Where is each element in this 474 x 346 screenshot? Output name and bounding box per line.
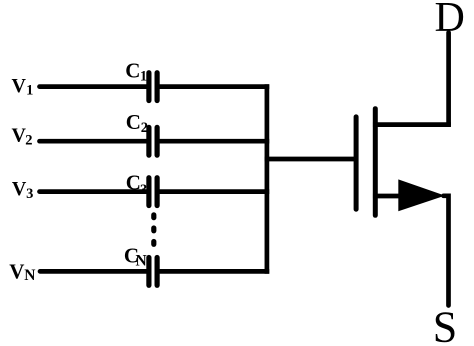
svg-text:1: 1 bbox=[140, 69, 147, 85]
capacitor C2 bbox=[149, 127, 157, 155]
drain wire horizontal bbox=[375, 122, 448, 127]
floating-gate summing bus wire bbox=[265, 87, 270, 272]
source wire stub bbox=[375, 194, 400, 199]
wire V2 to C2 bbox=[40, 139, 148, 144]
input label V3 bbox=[12, 178, 33, 202]
input label V1 bbox=[12, 75, 34, 98]
svg-text:C: C bbox=[125, 59, 140, 83]
MOSFET Q1 channel bar bbox=[373, 109, 378, 216]
svg-text:2: 2 bbox=[25, 132, 32, 148]
capacitor CN bbox=[149, 258, 157, 286]
capacitor C3 label bbox=[126, 171, 147, 199]
MOSFET Q1 gate bar bbox=[354, 117, 359, 209]
svg-text:3: 3 bbox=[140, 182, 147, 198]
svg-text:C: C bbox=[126, 110, 141, 134]
svg-text:C: C bbox=[126, 171, 141, 195]
capacitor C3 bbox=[149, 178, 157, 206]
svg-text:V: V bbox=[9, 260, 24, 284]
svg-text:S: S bbox=[433, 303, 457, 346]
wire C3 to summing bus bbox=[160, 189, 267, 194]
wire C1 to summing bus bbox=[160, 84, 267, 89]
svg-text:D: D bbox=[435, 0, 465, 41]
wire bus to MOSFET gate bbox=[267, 157, 354, 162]
source wire vertical bbox=[444, 196, 449, 306]
wire VN to CN bbox=[40, 269, 147, 274]
capacitor C1 label bbox=[125, 59, 147, 85]
svg-text:N: N bbox=[136, 252, 147, 269]
source arrow bbox=[398, 179, 445, 211]
svg-text:N: N bbox=[24, 267, 35, 284]
svg-text:3: 3 bbox=[26, 186, 33, 202]
dotted ellipsis between C3 and CN bbox=[151, 215, 156, 244]
input label VN bbox=[9, 260, 35, 284]
input label V2 bbox=[12, 124, 33, 148]
wire V3 to C3 bbox=[40, 189, 148, 194]
wire CN to summing bus bbox=[160, 269, 267, 274]
capacitor C1 bbox=[149, 73, 157, 101]
wire V1 to C1 bbox=[40, 84, 148, 89]
capacitor C2 label bbox=[126, 110, 148, 136]
svg-text:V: V bbox=[12, 178, 27, 200]
svg-text:1: 1 bbox=[26, 82, 33, 98]
drain wire vertical bbox=[446, 33, 451, 125]
capacitor CN label bbox=[124, 244, 147, 270]
svg-text:V: V bbox=[12, 75, 27, 97]
wire C2 to summing bus bbox=[160, 139, 267, 144]
